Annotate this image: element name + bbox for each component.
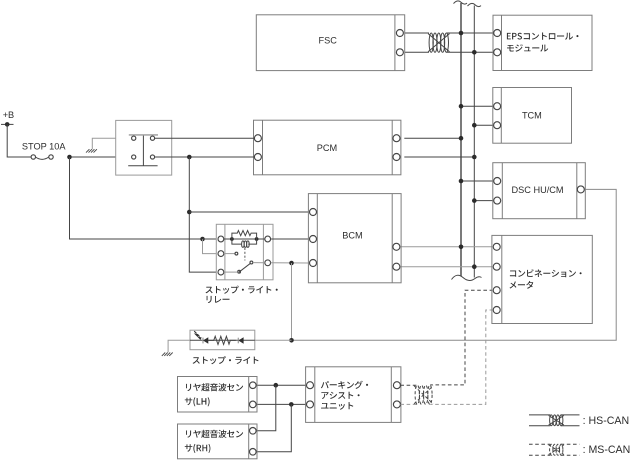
parking unit right pin 2: [393, 401, 400, 408]
DSC pin 1: [494, 178, 501, 185]
module EPS control module box: [493, 15, 592, 70]
module parking assist unit box: [306, 367, 401, 423]
svg-text:: MS-CAN: : MS-CAN: [583, 444, 630, 456]
node: CAN-2 junction BCM/meter: [472, 264, 477, 269]
switch contact pin 1: [132, 136, 136, 140]
wire DSC pin1 to CAN-1 bus: [461, 180, 494, 182]
wire switch pin4 to PCM left pin2: [155, 156, 255, 158]
fuse STOP 10A: [31, 155, 35, 159]
node: CAN-1 junction DSC: [459, 179, 464, 184]
sensor RH pin 1: [250, 428, 257, 435]
switch contact pin 3: [132, 155, 136, 159]
meter pin 1: [493, 243, 500, 250]
node: CAN-1 junction at FSC/EPS wire: [459, 31, 464, 36]
svg-text:STOP 10A: STOP 10A: [22, 142, 66, 152]
wire FSC pin2 to EPS pin2 (CAN-L): [404, 51, 430, 53]
switch contact pin 2: [150, 136, 154, 140]
svg-text:: HS-CAN: : HS-CAN: [583, 415, 630, 427]
dashed wire parking unit pin1 to MS-CAN pair: [400, 384, 417, 386]
node B: junction on stop light signal: [187, 155, 192, 160]
PCM left pin 2: [254, 154, 261, 161]
module TCM box: [493, 88, 572, 144]
sensor LH pin 2: [250, 401, 257, 408]
wire sensor LH pin2 to parking unit pin2: [256, 403, 306, 405]
label ストップ・ライト・リレー: [206, 286, 278, 294]
stop light resistor: [208, 336, 236, 344]
module rear ultrasonic sensor RH box: [178, 424, 258, 459]
wire PCM right pin2 to CAN-2 bus: [404, 156, 474, 158]
TCM pin 2: [494, 122, 501, 129]
relay pin 4 (out to BCM): [265, 236, 271, 242]
label パーキング・アシスト・ユニット: [321, 381, 368, 389]
wire node A down to relay feed: [70, 157, 201, 239]
EPS pin 2: [494, 49, 501, 56]
relay resistor (parallel): [232, 231, 257, 240]
ground G2 (stop light): [162, 353, 173, 356]
label ストップ・ライト: [193, 356, 259, 364]
wire TCM pin2 to CAN-2 bus: [474, 124, 493, 126]
stop light diode 2: [237, 338, 239, 344]
relay pin 1 (coil+): [218, 236, 224, 242]
module FSC box: [256, 15, 404, 71]
label リヤ超音波センサ(LH): [186, 383, 243, 391]
bus break squiggle bottom of buses: [452, 275, 482, 280]
wire switch pin2 to PCM left pin1: [155, 137, 255, 139]
wire sensor RH pin1 up to node G: [256, 385, 276, 431]
relay pin 3 (common): [218, 269, 224, 275]
module BCM box: [308, 194, 401, 283]
module combination meter box: [492, 235, 592, 323]
relay pin 2 (coil-): [218, 251, 224, 257]
wire FSC pin1 to EPS pin1 (CAN-H, through twisted pair and bus): [404, 32, 430, 34]
relay pin 5 (out to stop light): [265, 260, 271, 266]
svg-text:FSC: FSC: [319, 35, 338, 45]
stop light box: [190, 330, 255, 350]
BCM left pin 2: [310, 236, 317, 243]
stop light switch box: [116, 120, 172, 175]
legend MS-CAN symbol: [529, 443, 550, 445]
wire relay pin4 to BCM pin2: [271, 238, 310, 240]
wire BCM right pin2 to meter pin2 (CAN-2): [400, 266, 493, 268]
node: CAN-2 junction TCM: [472, 123, 477, 128]
node E: stop light branch: [289, 261, 294, 266]
BCM right pin 2: [393, 263, 400, 270]
module DSC HU/CM box: [493, 163, 586, 219]
node: CAN-2 junction DSC: [472, 198, 477, 203]
wire node C to BCM pin1: [189, 211, 309, 213]
DSC pin 2: [494, 197, 501, 204]
node: relay branch right: [255, 237, 259, 241]
FSC pin 2: [396, 49, 403, 56]
dashed MS-CAN wire meter pin3 to parking assist (via left elbow): [430, 290, 493, 385]
wire node D to relay pin1: [203, 238, 219, 240]
stop light relay box: [216, 224, 273, 279]
node H: sensor bus 2: [289, 402, 294, 407]
node: CAN-1 junction PCM: [459, 136, 464, 141]
wire PCM right pin1 to CAN-1 bus: [404, 137, 461, 139]
relay armature blade: [239, 263, 251, 272]
TCM pin 1: [494, 103, 501, 110]
wire ground G1 to switch contact: [92, 138, 131, 149]
label EPSコントロール・モジュール: [507, 33, 579, 40]
dashed wire parking unit pin2 to MS-CAN pair: [400, 403, 417, 405]
wire sensor RH pin2 up to node H: [256, 404, 291, 451]
svg-text:DSC HU/CM: DSC HU/CM: [512, 185, 564, 195]
PCM left pin 1: [254, 135, 261, 142]
node: CAN-2 junction PCM: [472, 155, 477, 160]
legend HS-CAN symbol: [529, 414, 550, 416]
svg-text:TCM: TCM: [522, 111, 542, 121]
DSC right pin: [577, 186, 584, 193]
node: CAN-1 junction BCM/meter: [459, 245, 464, 250]
wire node D elbow to relay pin2: [203, 239, 219, 254]
node C: BCM pin1 branch: [187, 210, 192, 215]
module rear ultrasonic sensor LH box: [178, 377, 258, 413]
PCM right pin 1: [393, 135, 400, 142]
twisted pair FSC-EPS (HS-CAN): [428, 34, 449, 52]
wire stop light to node F: [255, 339, 292, 341]
svg-text:PCM: PCM: [317, 143, 337, 153]
relay mechanical link (dashed): [244, 248, 246, 261]
wire DSC right pin to stop-light sense line (right, down, left): [294, 189, 617, 340]
wire relay pin3 stub: [224, 271, 238, 273]
wire TCM pin1 to CAN-1 bus: [461, 105, 494, 107]
sensor RH pin 2: [250, 449, 257, 456]
node F: stop light sense junction: [289, 338, 294, 343]
module PCM box: [254, 120, 401, 175]
wire BCM right pin1 to meter pin1 (CAN-1): [400, 246, 493, 248]
label コンビネーション・メータ: [510, 269, 582, 277]
relay armature contact a: [238, 270, 241, 273]
node: relay branch left: [230, 237, 234, 241]
svg-text:+B: +B: [3, 110, 15, 120]
parking unit right pin 1: [393, 382, 400, 389]
HS-CAN bus wire CAN-1 (left): [460, 3, 462, 277]
node A: fuse output junction: [67, 155, 72, 160]
relay armature contact b: [250, 261, 253, 264]
HS-CAN bus wire CAN-2 (right): [473, 6, 475, 278]
label リヤ超音波センサ(RH): [186, 430, 243, 438]
parking unit left pin 2: [307, 401, 314, 408]
wire +B to fuse: [7, 124, 31, 157]
twisted pair MS-CAN (dashed): [414, 386, 433, 404]
wire stop light to ground elbow: [168, 340, 190, 352]
BCM left pin 3: [310, 260, 317, 267]
stop light LED arrows: [194, 331, 199, 336]
PCM right pin 2: [393, 154, 400, 161]
relay internal feed wire pin1-pin4: [224, 238, 265, 240]
dashed MS-CAN wire meter pin4 to parking assist (via right elbow): [430, 310, 493, 404]
switch plunger stem: [142, 136, 144, 166]
meter pin 2: [493, 263, 500, 270]
wire sensor LH pin1 to parking unit pin1: [256, 384, 306, 386]
wire DSC pin2 to CAN-2 bus: [474, 200, 494, 202]
wire fuse to stop light switch: [72, 156, 132, 158]
EPS pin 1: [494, 30, 501, 37]
switch bridge bar: [129, 134, 158, 136]
FSC pin 1: [396, 30, 403, 37]
meter pin 3: [493, 287, 500, 294]
parking unit left pin 1: [307, 382, 314, 389]
node: CAN-1 junction TCM: [459, 104, 464, 109]
meter pin 4: [493, 307, 500, 314]
node G: sensor bus 1: [274, 383, 279, 388]
sensor LH pin 1: [250, 382, 257, 389]
switch contact pin 4: [150, 155, 154, 159]
svg-text:BCM: BCM: [342, 231, 362, 241]
stop light internal wire: [190, 339, 255, 341]
wire relay contact b to pin5: [253, 262, 265, 264]
ground G1 (stop light switch): [86, 149, 97, 152]
BCM right pin 1: [393, 243, 400, 250]
BCM left pin 1: [310, 209, 317, 216]
stop light LED diode: [202, 338, 204, 344]
bus break squiggle top of CAN-2: [468, 3, 482, 6]
node D: relay feed junction: [200, 237, 205, 242]
wire relay pin5 to BCM pin3: [271, 262, 310, 264]
wire node B down to relay pin3: [189, 157, 218, 272]
wire node E down to stop light: [291, 263, 293, 340]
bus break squiggle top of CAN-1: [454, 1, 468, 4]
relay coil: [232, 239, 242, 244]
node: CAN-2 junction at FSC/EPS wire: [472, 50, 477, 55]
relay contact stub from pin2: [224, 253, 235, 255]
